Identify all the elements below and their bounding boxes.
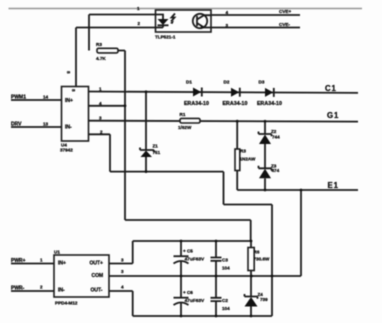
svg-text:R3: R3 <box>240 149 246 154</box>
svg-text:3: 3 <box>121 258 124 263</box>
svg-text:D2: D2 <box>224 80 230 85</box>
svg-text:2: 2 <box>100 129 103 134</box>
svg-text:CVE-: CVE- <box>279 22 290 27</box>
svg-text:D3: D3 <box>259 80 265 85</box>
svg-text:3: 3 <box>99 116 102 121</box>
svg-text:Z2: Z2 <box>271 129 277 134</box>
svg-text:PWR-: PWR- <box>11 286 25 292</box>
svg-text:R3: R3 <box>96 42 102 47</box>
svg-text:PWR+: PWR+ <box>11 258 26 264</box>
svg-text:Z1: Z1 <box>153 144 159 149</box>
svg-text:1: 1 <box>99 87 102 92</box>
svg-text:104: 104 <box>222 306 230 311</box>
svg-text:744: 744 <box>272 135 280 140</box>
svg-text:1/62W: 1/62W <box>178 125 192 130</box>
svg-text:3: 3 <box>121 269 124 274</box>
svg-text:C1: C1 <box>325 84 337 93</box>
svg-text:CVE+: CVE+ <box>279 9 291 14</box>
svg-text:IN-: IN- <box>65 125 72 131</box>
svg-text:+ C6: + C6 <box>183 290 193 295</box>
svg-text:739: 739 <box>260 297 268 302</box>
svg-text:4: 4 <box>121 285 124 290</box>
svg-text:DRV: DRV <box>11 122 22 128</box>
svg-text:47uF63V: 47uF63V <box>185 257 206 263</box>
svg-text:47uF63V: 47uF63V <box>185 298 206 304</box>
svg-text:R1: R1 <box>180 112 186 117</box>
svg-text:E1: E1 <box>328 181 339 190</box>
svg-text:IN+: IN+ <box>65 98 73 104</box>
svg-text:IN-: IN- <box>58 288 65 294</box>
svg-text:1: 1 <box>137 6 140 11</box>
svg-text:PWM1: PWM1 <box>11 95 26 101</box>
svg-text:4: 4 <box>99 101 102 106</box>
svg-text:474: 474 <box>272 168 280 173</box>
svg-text:ERA34-10: ERA34-10 <box>223 101 248 107</box>
svg-text:8: 8 <box>71 89 76 92</box>
svg-text:1N2AW: 1N2AW <box>240 157 256 162</box>
svg-text:1: 1 <box>40 258 43 263</box>
svg-text:730.6W: 730.6W <box>254 257 270 262</box>
svg-text:TLP521-1: TLP521-1 <box>155 35 176 40</box>
svg-text:OUT+: OUT+ <box>90 261 104 267</box>
svg-text:4.7K: 4.7K <box>96 56 106 61</box>
svg-text:104: 104 <box>222 266 230 271</box>
svg-text:13: 13 <box>43 122 49 127</box>
svg-text:37942: 37942 <box>60 148 73 153</box>
svg-text:3: 3 <box>226 23 229 28</box>
svg-text:751: 751 <box>153 150 161 155</box>
svg-text:COM: COM <box>92 273 104 279</box>
svg-text:C2: C2 <box>222 298 228 303</box>
svg-text:14: 14 <box>43 95 49 100</box>
svg-text:ERA34-10: ERA34-10 <box>184 101 209 107</box>
svg-text:8: 8 <box>66 71 71 74</box>
svg-text:IN+: IN+ <box>58 261 66 267</box>
svg-text:OUT-: OUT- <box>91 288 103 294</box>
svg-text:D1: D1 <box>186 80 192 85</box>
svg-text:2: 2 <box>40 285 43 290</box>
svg-text:C3: C3 <box>222 258 228 263</box>
svg-text:R6: R6 <box>254 250 260 255</box>
svg-text:4: 4 <box>226 10 229 15</box>
svg-text:PPD4-M12: PPD4-M12 <box>55 301 78 306</box>
svg-text:+ C5: + C5 <box>183 249 193 254</box>
svg-text:G1: G1 <box>327 111 339 120</box>
svg-text:ERA34-10: ERA34-10 <box>257 101 282 107</box>
svg-text:U1: U1 <box>54 250 60 255</box>
svg-text:2: 2 <box>138 21 141 26</box>
